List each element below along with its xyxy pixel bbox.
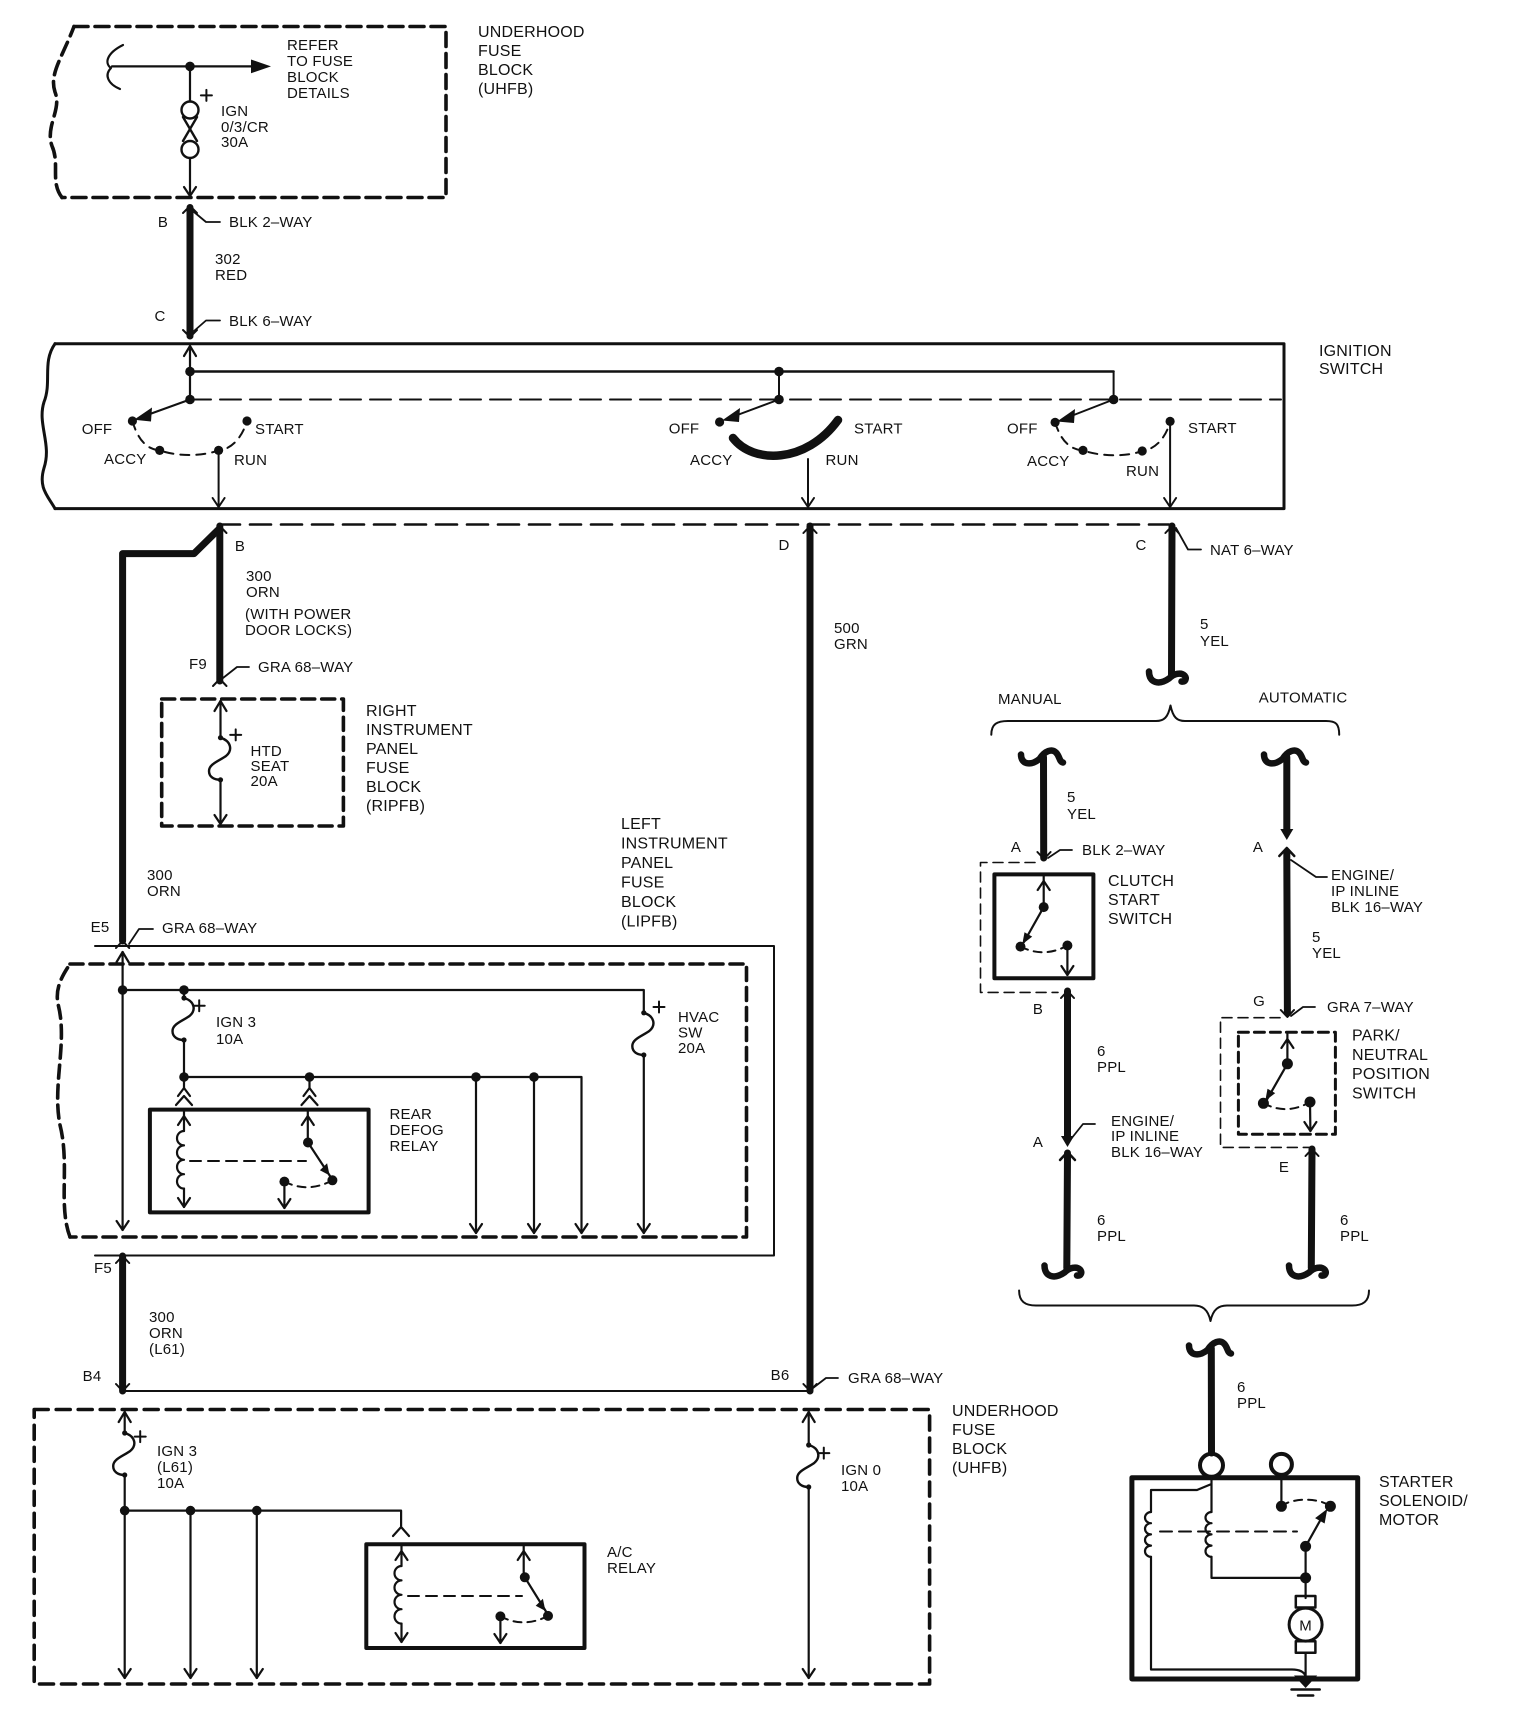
wire 6 PPL to solenoid <box>1208 1348 1215 1453</box>
svg-text:SW: SW <box>678 1025 703 1042</box>
label IGNITION SWITCH <box>1319 343 1392 378</box>
svg-text:IP INLINE: IP INLINE <box>1111 1128 1179 1145</box>
splice brace <box>991 706 1339 735</box>
label 6 PPL solenoid <box>1237 1379 1266 1412</box>
A/C relay switch common <box>523 1546 525 1577</box>
label IGN 3 (L61) 10A <box>157 1443 197 1492</box>
connector E5 GRA 68-WAY leader <box>129 929 153 944</box>
wire start hook solenoid feed <box>1189 1342 1231 1355</box>
wafer2 labels <box>669 421 903 470</box>
relay switch common <box>307 1111 309 1143</box>
svg-text:10A: 10A <box>216 1031 243 1048</box>
node junction IGN3 fuse top <box>179 985 189 995</box>
wire end hook manual <box>1045 1266 1082 1277</box>
svg-text:UNDERHOOD: UNDERHOOD <box>952 1403 1059 1420</box>
svg-text:(L61): (L61) <box>149 1341 185 1358</box>
wafer2 RUN output wire <box>807 459 809 507</box>
svg-text:RED: RED <box>215 267 247 284</box>
wire 300 ORN elbow branch to E5 <box>123 530 218 941</box>
wire entry arrow into ignition switch <box>184 346 196 356</box>
A/C relay box <box>366 1544 584 1648</box>
connector C NAT 6-WAY leader <box>1176 528 1201 550</box>
svg-text:300: 300 <box>147 867 173 884</box>
label 500 GRN <box>834 620 868 653</box>
relay coil plug connector <box>183 1077 185 1088</box>
svg-text:YEL: YEL <box>1312 945 1341 962</box>
plus sign <box>201 90 212 101</box>
fused bus wire to A/C relay <box>125 1511 401 1526</box>
label 6 PPL lower <box>1097 1212 1126 1245</box>
svg-text:BLOCK: BLOCK <box>366 779 421 796</box>
relay dashed actuation line <box>190 1160 306 1162</box>
svg-text:5: 5 <box>1312 929 1321 946</box>
PNP switch NO contact <box>1305 1097 1316 1108</box>
connector face line B4 to B6 <box>125 1390 809 1392</box>
wafer3 START output wire <box>1169 421 1171 507</box>
svg-text:BLOCK: BLOCK <box>478 62 533 79</box>
underhood fuse block (UHFB) top dashed box <box>50 27 446 198</box>
node junction fused bus left <box>179 1072 189 1082</box>
node junction wafer2 dashed <box>774 395 784 405</box>
output arrow 1 <box>124 1511 126 1678</box>
svg-text:RIGHT: RIGHT <box>366 703 417 720</box>
node junction top <box>185 62 195 72</box>
wire feed in UHFB <box>107 45 254 89</box>
svg-text:BLK 16–WAY: BLK 16–WAY <box>1331 899 1423 916</box>
wire end hook automatic <box>1289 1266 1326 1277</box>
svg-text:PPL: PPL <box>1097 1059 1126 1076</box>
svg-text:B6: B6 <box>771 1367 790 1384</box>
svg-text:TO FUSE: TO FUSE <box>287 53 353 70</box>
arrow down out of UHFB <box>184 187 196 196</box>
fuse IGN 3 (L61) 10A <box>113 1433 134 1475</box>
svg-text:ACCY: ACCY <box>690 452 732 469</box>
wire to circuit breaker <box>189 66 191 101</box>
svg-text:C: C <box>154 308 165 325</box>
coil1 to ground run <box>1151 1557 1306 1676</box>
output arrow 2 <box>189 1511 191 1678</box>
label IGN 0/3/CR 30A <box>221 103 269 151</box>
switch wafer 2 pointer <box>732 400 779 418</box>
label 300 ORN <box>246 568 280 601</box>
node junction wafer1 solid <box>185 367 195 377</box>
wafer3 contact ACCY <box>1078 446 1087 455</box>
output arrow 3 <box>256 1511 258 1678</box>
node junction wafer3 dashed <box>1109 395 1119 405</box>
svg-text:BLK 6–WAY: BLK 6–WAY <box>229 313 313 330</box>
svg-text:D: D <box>778 537 789 554</box>
fuse HVAC SW 20A <box>641 1010 646 1015</box>
label A/C RELAY <box>607 1544 656 1577</box>
connector B6 GRA 68-WAY leader <box>813 1378 838 1388</box>
solenoid contact left <box>1276 1501 1287 1512</box>
A/C relay coil input arrow <box>400 1546 402 1566</box>
switch wafer 3 pointer <box>1066 400 1114 419</box>
UHFB entry arrow from B6 <box>803 1412 815 1422</box>
svg-text:20A: 20A <box>251 773 278 790</box>
relay output arrow <box>283 1182 285 1208</box>
svg-text:E: E <box>1279 1159 1289 1176</box>
label UNDERHOOD FUSE BLOCK (UHFB) <box>478 24 585 98</box>
svg-text:IGN 3: IGN 3 <box>157 1443 197 1460</box>
svg-text:FUSE: FUSE <box>952 1422 995 1439</box>
solenoid hold-in coil <box>1206 1512 1212 1557</box>
wire start hook MANUAL branch <box>1021 751 1063 764</box>
wafer1 labels <box>82 421 304 469</box>
wire 300 ORN (L61) F5 to B4 <box>119 1256 126 1391</box>
svg-text:(L61): (L61) <box>157 1459 193 1476</box>
wire 5 YEL manual <box>1040 757 1047 858</box>
clutch switch moving contact <box>1024 907 1044 942</box>
svg-text:CLUTCH: CLUTCH <box>1108 873 1174 890</box>
svg-text:BLK 2–WAY: BLK 2–WAY <box>229 214 313 231</box>
solenoid feed split <box>1151 1477 1212 1512</box>
label IGN 3 10A <box>216 1014 256 1048</box>
svg-text:PPL: PPL <box>1237 1395 1266 1412</box>
svg-text:BLOCK: BLOCK <box>287 69 339 86</box>
label IGN 0 10A <box>841 1462 881 1495</box>
PNP switch common contact <box>1282 1058 1293 1069</box>
coil2 to motor node <box>1212 1557 1306 1578</box>
wafer3 contact START <box>1166 417 1175 426</box>
svg-text:NAT 6–WAY: NAT 6–WAY <box>1210 542 1294 559</box>
underhood fuse block (UHFB) bottom dashed box <box>34 1410 929 1685</box>
svg-text:PPL: PPL <box>1097 1228 1126 1245</box>
wafer1 contact OFF <box>128 416 137 425</box>
svg-text:IGN 3: IGN 3 <box>216 1014 256 1031</box>
branch2 output arrow <box>533 1077 535 1233</box>
node junction branch2 <box>529 1072 539 1082</box>
svg-text:IGNITION: IGNITION <box>1319 343 1392 360</box>
svg-text:LEFT: LEFT <box>621 816 661 833</box>
label LEFT INSTRUMENT PANEL FUSE BLOCK (LIPFB) <box>621 816 728 931</box>
plus sign <box>654 1002 665 1013</box>
IGN 0 output arrow <box>808 1487 810 1678</box>
wire 302 RED <box>187 208 194 337</box>
wafer3 labels <box>1007 420 1237 480</box>
clutch switch common contact <box>1039 902 1049 912</box>
connector C BLK 6-WAY leader <box>194 321 220 332</box>
svg-text:BLOCK: BLOCK <box>952 1441 1007 1458</box>
label RIGHT INSTRUMENT PANEL FUSE BLOCK (RIPFB) <box>366 703 473 815</box>
svg-text:START: START <box>854 421 903 438</box>
svg-text:FUSE: FUSE <box>621 875 664 892</box>
svg-text:300: 300 <box>149 1309 175 1326</box>
label REAR DEFOG RELAY <box>390 1106 444 1155</box>
contact to motor wire <box>1304 1546 1306 1598</box>
clutch switch NO contact <box>1062 941 1072 951</box>
svg-text:IGN 0: IGN 0 <box>841 1462 881 1479</box>
svg-text:SWITCH: SWITCH <box>1352 1085 1416 1102</box>
label REFER TO FUSE BLOCK DETAILS <box>287 37 353 102</box>
svg-text:(WITH POWER: (WITH POWER <box>245 606 351 623</box>
svg-text:FUSE: FUSE <box>366 760 409 777</box>
wafer3 feed drop <box>1113 372 1115 400</box>
svg-text:E5: E5 <box>91 919 110 936</box>
svg-text:PPL: PPL <box>1340 1228 1369 1245</box>
internal dashed bus <box>190 399 1281 401</box>
fuse IGN 3 10A <box>183 990 185 998</box>
svg-text:B: B <box>1033 1001 1043 1018</box>
svg-text:DEFOG: DEFOG <box>390 1122 444 1139</box>
A/C relay coil <box>394 1566 401 1624</box>
svg-text:REAR: REAR <box>390 1106 432 1123</box>
plus sign <box>194 1000 205 1011</box>
wire 5 YEL from pin C <box>1168 526 1176 675</box>
svg-text:M: M <box>1299 1618 1312 1635</box>
wire 6 PPL lower manual <box>1063 1153 1071 1268</box>
svg-text:START: START <box>1108 892 1160 909</box>
svg-text:302: 302 <box>215 251 241 268</box>
svg-text:GRA 7–WAY: GRA 7–WAY <box>1327 999 1414 1016</box>
node junction motor feed <box>1300 1572 1311 1583</box>
label 302 RED <box>215 251 247 284</box>
wafer3 contact RUN <box>1138 446 1147 455</box>
solenoid moving contact <box>1306 1519 1321 1546</box>
wafer1 contact ACCY <box>155 446 164 455</box>
svg-text:6: 6 <box>1097 1043 1106 1060</box>
wafer2 contact OFF <box>715 417 724 426</box>
svg-text:5: 5 <box>1067 789 1076 806</box>
relay coil <box>177 1131 184 1189</box>
clutch switch output arrow <box>1066 946 1068 976</box>
rear defog relay box <box>150 1110 369 1213</box>
svg-text:HVAC: HVAC <box>678 1009 719 1026</box>
svg-text:ACCY: ACCY <box>1027 453 1069 470</box>
svg-text:STARTER: STARTER <box>1379 1474 1454 1491</box>
svg-text:6: 6 <box>1340 1212 1349 1229</box>
svg-text:UNDERHOOD: UNDERHOOD <box>478 24 585 41</box>
label 6 PPL automatic <box>1340 1212 1369 1245</box>
PNP switch input arrow <box>1286 1034 1288 1064</box>
svg-text:INSTRUMENT: INSTRUMENT <box>621 836 728 853</box>
arrow REFER TO FUSE BLOCK DETAILS <box>251 60 271 74</box>
plus sign <box>230 729 241 740</box>
svg-text:A/C: A/C <box>607 1544 633 1561</box>
svg-text:FUSE: FUSE <box>478 43 521 60</box>
A/C relay moving contact <box>525 1577 546 1611</box>
svg-text:DOOR LOCKS): DOOR LOCKS) <box>245 622 352 639</box>
terminal B stem <box>1280 1475 1282 1501</box>
relay coil input arrow <box>183 1111 185 1131</box>
wafer1 dashed arc <box>132 421 247 455</box>
svg-text:AUTOMATIC: AUTOMATIC <box>1259 690 1348 707</box>
node junction wafer1 dashed <box>185 395 195 405</box>
wire below breaker <box>189 158 191 196</box>
svg-text:GRN: GRN <box>834 636 868 653</box>
svg-text:(LIPFB): (LIPFB) <box>621 914 678 931</box>
svg-text:10A: 10A <box>157 1475 184 1492</box>
svg-text:MANUAL: MANUAL <box>998 691 1062 708</box>
fuse HTD SEAT 20A <box>209 738 230 780</box>
svg-text:OFF: OFF <box>1007 421 1038 438</box>
svg-text:DETAILS: DETAILS <box>287 85 350 102</box>
solenoid contact dashed bridge <box>1281 1500 1330 1507</box>
connector F9 GRA 68-WAY leader <box>223 667 249 678</box>
wafer1 RUN output wire <box>218 450 220 507</box>
UHFB entry arrow from B4 <box>119 1412 131 1422</box>
branch1 output arrow <box>475 1077 477 1233</box>
label 5 YEL manual <box>1067 789 1096 823</box>
connector BLK 2-WAY leader <box>1048 850 1072 858</box>
svg-text:INSTRUMENT: INSTRUMENT <box>366 722 473 739</box>
svg-text:PANEL: PANEL <box>621 855 673 872</box>
starter solenoid/motor box <box>1132 1478 1358 1679</box>
inline connector ENGINE/IP arrow <box>1061 1136 1074 1147</box>
svg-text:ORN: ORN <box>246 584 280 601</box>
svg-text:6: 6 <box>1097 1212 1106 1229</box>
label 5 YEL <box>1200 616 1229 650</box>
LIPFB inner dashed box <box>57 964 746 1237</box>
svg-text:ENGINE/: ENGINE/ <box>1331 867 1395 884</box>
svg-text:IGN: IGN <box>221 103 248 120</box>
svg-text:RELAY: RELAY <box>390 1138 439 1155</box>
starter solenoid terminal S <box>1200 1454 1223 1477</box>
svg-text:A: A <box>1253 839 1263 856</box>
svg-text:BLK 2–WAY: BLK 2–WAY <box>1082 842 1166 859</box>
label HVAC SW 20A <box>678 1009 719 1057</box>
svg-text:GRA 68–WAY: GRA 68–WAY <box>848 1370 943 1387</box>
node junction out1 <box>186 1506 196 1516</box>
svg-text:6: 6 <box>1237 1379 1246 1396</box>
svg-text:GRA 68–WAY: GRA 68–WAY <box>258 659 353 676</box>
plus sign <box>135 1431 146 1442</box>
svg-text:REFER: REFER <box>287 37 339 54</box>
svg-text:F5: F5 <box>94 1260 112 1277</box>
motor to ground wire <box>1304 1653 1306 1676</box>
svg-text:B4: B4 <box>83 1368 102 1385</box>
starter motor M <box>1296 1596 1316 1608</box>
A/C relay NO contact <box>495 1611 505 1621</box>
svg-text:300: 300 <box>246 568 272 585</box>
wire start hook AUTOMATIC branch <box>1264 751 1306 764</box>
svg-text:5: 5 <box>1200 616 1209 633</box>
svg-text:F9: F9 <box>189 656 207 673</box>
svg-text:NEUTRAL: NEUTRAL <box>1352 1047 1428 1064</box>
solenoid pull-in coil <box>1145 1512 1151 1557</box>
svg-text:MOTOR: MOTOR <box>1379 1512 1439 1529</box>
svg-text:RUN: RUN <box>1126 463 1159 480</box>
park/neutral position switch dashed box <box>1238 1032 1335 1134</box>
joining brace <box>1019 1291 1369 1322</box>
svg-text:C: C <box>1135 537 1146 554</box>
fuse IGN 0 10A <box>797 1445 818 1487</box>
svg-text:10A: 10A <box>841 1478 868 1495</box>
svg-text:20A: 20A <box>678 1040 705 1057</box>
wire end hook C <box>1149 672 1186 683</box>
svg-text:(RIPFB): (RIPFB) <box>366 798 425 815</box>
solenoid actuation dashed line <box>1160 1531 1297 1533</box>
wafer3 dashed arc <box>1055 421 1170 455</box>
label PARK/NEUTRAL POSITION SWITCH <box>1352 1028 1430 1103</box>
svg-text:500: 500 <box>834 620 860 637</box>
node junction wafer2 solid <box>774 367 784 377</box>
svg-text:PANEL: PANEL <box>366 741 418 758</box>
svg-text:RELAY: RELAY <box>607 1560 656 1577</box>
A/C relay coil output arrow <box>400 1624 402 1642</box>
connector ENGINE/IP INLINE BLK 16-WAY leader automatic <box>1291 860 1327 877</box>
svg-text:START: START <box>1188 420 1237 437</box>
wire bus to HVAC fuse <box>123 990 644 1013</box>
svg-text:B: B <box>235 538 245 555</box>
svg-text:GRA 68–WAY: GRA 68–WAY <box>162 920 257 937</box>
left instrument panel fuse block outer outline <box>95 946 774 1256</box>
svg-text:B: B <box>158 214 168 231</box>
label (WITH POWER DOOR LOCKS) <box>245 606 352 639</box>
park/neutral position switch outer outline <box>1221 1018 1320 1148</box>
wafer1 contact RUN <box>214 446 223 455</box>
relay moving contact <box>308 1143 330 1177</box>
svg-text:30A: 30A <box>221 134 248 151</box>
wire 6 PPL clutch out <box>1061 991 1074 998</box>
svg-text:OFF: OFF <box>82 421 113 438</box>
svg-text:IP INLINE: IP INLINE <box>1331 883 1399 900</box>
svg-text:ORN: ORN <box>149 1325 183 1342</box>
svg-text:START: START <box>255 421 304 438</box>
svg-text:ACCY: ACCY <box>104 451 146 468</box>
svg-text:YEL: YEL <box>1200 633 1229 650</box>
fused bus wire <box>184 1077 582 1233</box>
label 5 YEL automatic <box>1312 929 1341 962</box>
right instrument panel fuse block dashed box <box>162 699 344 826</box>
wire 5 YEL automatic lower <box>1283 852 1291 1013</box>
svg-text:G: G <box>1253 993 1265 1010</box>
relay NO contact <box>279 1177 289 1187</box>
label 300 ORN (second) <box>147 867 181 900</box>
label UNDERHOOD FUSE BLOCK (UHFB) bottom <box>952 1403 1059 1477</box>
connector B BLK 2-WAY leader <box>194 212 220 222</box>
clutch start switch box <box>994 874 1093 978</box>
label 300 ORN (L61) <box>149 1309 185 1358</box>
A/C relay dashed actuation line <box>408 1595 522 1597</box>
PNP switch moving contact <box>1267 1064 1287 1100</box>
svg-text:SWITCH: SWITCH <box>1319 361 1383 378</box>
relay switch plug connector <box>308 1077 310 1088</box>
svg-text:ORN: ORN <box>147 883 181 900</box>
A/C relay output arrow <box>499 1616 501 1643</box>
wire 5 YEL automatic <box>1283 757 1290 831</box>
svg-text:SOLENOID/: SOLENOID/ <box>1379 1493 1468 1510</box>
wire 300 ORN from pin B <box>216 526 223 681</box>
wafer2 thick contact arc <box>733 420 838 456</box>
starter solenoid terminal B <box>1271 1454 1292 1475</box>
clutch start switch outer dashed outline <box>981 863 1059 993</box>
node junction branch1 <box>471 1072 481 1082</box>
svg-text:SWITCH: SWITCH <box>1108 911 1172 928</box>
clutch switch input arrow <box>1043 876 1045 907</box>
svg-text:YEL: YEL <box>1067 806 1096 823</box>
ground <box>1294 1676 1317 1689</box>
node junction out2 <box>252 1506 262 1516</box>
solenoid contact right <box>1325 1501 1336 1512</box>
wafer1 contact START <box>242 416 251 425</box>
plus sign <box>818 1448 829 1459</box>
relay coil output arrow <box>183 1189 185 1207</box>
HVAC fuse output arrow <box>643 1055 645 1233</box>
node junction IGN3 bus <box>120 1506 130 1516</box>
connector GRA 7-WAY leader <box>1291 1007 1315 1016</box>
LIPFB entry arrow wire <box>117 952 129 962</box>
RIPFB exit arrow <box>219 780 221 824</box>
wire 6 PPL automatic lower <box>1306 1149 1319 1156</box>
connector ENGINE/IP INLINE BLK 16-WAY leader <box>1071 1124 1095 1139</box>
label 6 PPL <box>1097 1043 1126 1076</box>
PNP switch output arrow <box>1309 1102 1312 1131</box>
node junction defog switch feed <box>305 1072 315 1082</box>
circuit breaker IGN 0/3/CR 30A <box>182 102 199 159</box>
svg-text:PARK/: PARK/ <box>1352 1028 1400 1045</box>
ignition switch box <box>42 344 1284 509</box>
